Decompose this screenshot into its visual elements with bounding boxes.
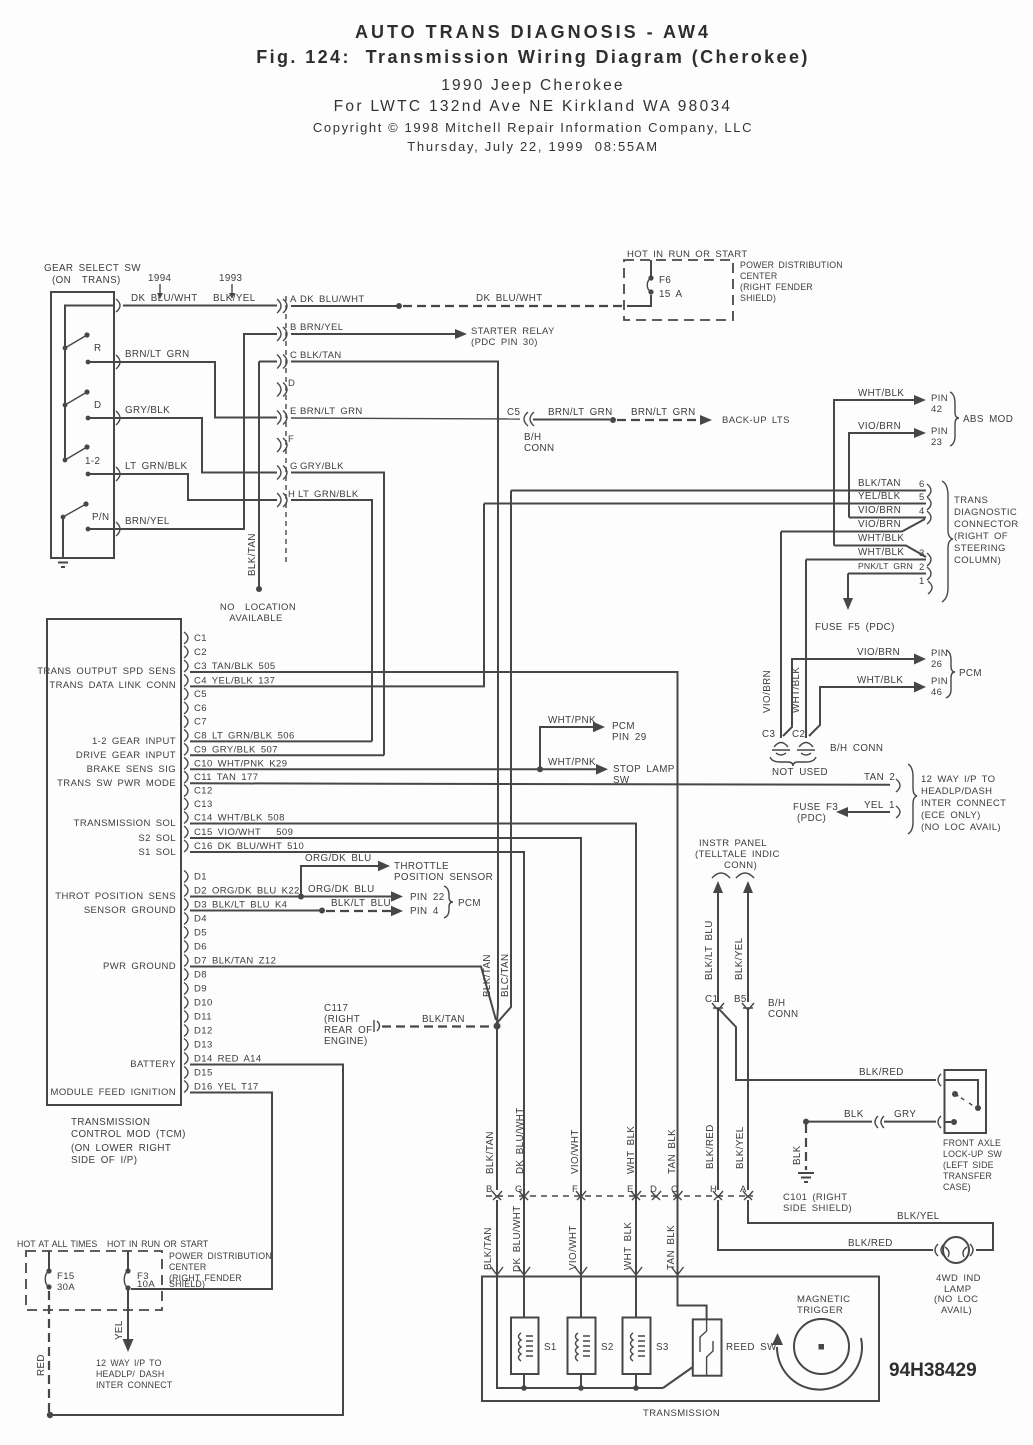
svg-text:1993: 1993 bbox=[219, 273, 243, 284]
svg-text:H: H bbox=[288, 489, 295, 500]
svg-text:H: H bbox=[710, 1184, 717, 1195]
instrument panel telltale wires bbox=[695, 838, 936, 1190]
wire to instr panel BLK/LT BLU bbox=[713, 881, 723, 893]
connector arcs at switch edge bbox=[116, 299, 120, 536]
wire C15 VIO/WHT 509 bbox=[190, 838, 581, 1266]
BLK to ground C101 bbox=[805, 1124, 807, 1170]
switch throw D bbox=[65, 392, 87, 405]
svg-text:YEL 1: YEL 1 bbox=[864, 800, 895, 811]
svg-text:S2: S2 bbox=[601, 1342, 614, 1353]
svg-text:PIN: PIN bbox=[931, 676, 948, 687]
svg-text:BLK/TAN: BLK/TAN bbox=[247, 533, 258, 576]
svg-text:F15: F15 bbox=[57, 1271, 75, 1282]
svg-text:VIO/WHT: VIO/WHT bbox=[568, 1225, 579, 1270]
svg-text:BLK/LT BLU: BLK/LT BLU bbox=[704, 920, 715, 980]
svg-text:BLK/LT BLU: BLK/LT BLU bbox=[331, 898, 391, 909]
svg-text:BACK-UP LTS: BACK-UP LTS bbox=[722, 415, 790, 426]
PCM brace bbox=[946, 650, 955, 698]
svg-text:TRANS OUTPUT SPD SENS: TRANS OUTPUT SPD SENS bbox=[37, 666, 176, 677]
svg-text:S2 SOL: S2 SOL bbox=[138, 833, 176, 844]
svg-text:PCM: PCM bbox=[612, 721, 635, 732]
svg-text:D1: D1 bbox=[194, 872, 207, 883]
svg-text:C117: C117 bbox=[324, 1003, 348, 1014]
svg-text:BLK/TAN: BLK/TAN bbox=[485, 1131, 496, 1174]
svg-text:C7: C7 bbox=[194, 717, 207, 728]
svg-text:FRONT AXLE: FRONT AXLE bbox=[943, 1138, 1001, 1148]
svg-text:B: B bbox=[290, 322, 297, 333]
svg-text:WHT/BLK: WHT/BLK bbox=[858, 547, 904, 558]
svg-text:DK BLU/WHT: DK BLU/WHT bbox=[300, 294, 365, 305]
pin 2 PNK/LT GRN bbox=[848, 573, 926, 575]
svg-text:C14 WHT/BLK 508: C14 WHT/BLK 508 bbox=[194, 813, 285, 824]
svg-text:D12: D12 bbox=[194, 1026, 213, 1037]
svg-text:3: 3 bbox=[919, 548, 925, 559]
svg-text:INTER CONNECT: INTER CONNECT bbox=[921, 798, 1006, 809]
svg-text:GRY/BLK: GRY/BLK bbox=[300, 461, 344, 472]
svg-text:GRY/BLK: GRY/BLK bbox=[125, 405, 170, 416]
svg-text:(LEFT SIDE: (LEFT SIDE bbox=[943, 1160, 994, 1170]
svg-text:COLUMN): COLUMN) bbox=[954, 555, 1001, 566]
svg-text:WHT/BLK: WHT/BLK bbox=[858, 388, 904, 399]
svg-text:PIN: PIN bbox=[931, 393, 948, 404]
switch throw R bbox=[65, 335, 87, 348]
svg-text:CASE): CASE) bbox=[943, 1182, 971, 1192]
svg-text:PIN 4: PIN 4 bbox=[410, 906, 439, 917]
svg-text:F: F bbox=[572, 1184, 578, 1195]
svg-text:F6: F6 bbox=[659, 275, 671, 286]
wire C11 TAN 177 to 12-way bbox=[190, 783, 890, 785]
svg-text:TAN 2: TAN 2 bbox=[864, 772, 895, 783]
svg-text:C16 DK BLU/WHT 510: C16 DK BLU/WHT 510 bbox=[194, 841, 304, 852]
switch throw 1-2 bbox=[65, 447, 87, 460]
svg-text:DK BLU/WHT: DK BLU/WHT bbox=[131, 293, 198, 304]
svg-text:ENGINE): ENGINE) bbox=[324, 1036, 368, 1047]
ground C101 bbox=[798, 1173, 814, 1182]
svg-text:REAR OF: REAR OF bbox=[324, 1025, 373, 1036]
wire C3 TAN/BLK 505 bbox=[190, 672, 678, 1266]
wire D2 ORG/DK BLU K22 to throttle position sensor / PCM pin 22 bbox=[190, 853, 493, 903]
svg-text:WHT/PNK: WHT/PNK bbox=[548, 715, 596, 726]
branch to front axle lock-up sw bbox=[719, 1009, 936, 1080]
VIO/BRN to PCM pin 26 bbox=[783, 659, 915, 736]
VIO/BRN joining pin 4 bbox=[781, 519, 925, 532]
svg-text:G: G bbox=[290, 461, 298, 472]
svg-text:AUTO TRANS DIAGNOSIS - AW4: AUTO TRANS DIAGNOSIS - AW4 bbox=[355, 22, 711, 42]
svg-text:G: G bbox=[515, 1184, 523, 1195]
wire D7 BLK/TAN Z12 bbox=[190, 967, 496, 1021]
svg-text:BRN/LT GRN: BRN/LT GRN bbox=[631, 407, 696, 418]
svg-text:LT GRN/BLK: LT GRN/BLK bbox=[125, 461, 188, 472]
svg-text:INTER CONNECT: INTER CONNECT bbox=[96, 1380, 173, 1390]
switch common bus bbox=[65, 306, 114, 461]
svg-text:P/N: P/N bbox=[92, 512, 110, 523]
svg-text:C6: C6 bbox=[194, 703, 207, 714]
fuse F6 15A bbox=[648, 289, 653, 294]
front axle lock-up switch bbox=[783, 1070, 1003, 1214]
wire down to fuse F5 bbox=[847, 574, 849, 600]
svg-text:C1: C1 bbox=[194, 633, 207, 644]
svg-text:THROT POSITION SENS: THROT POSITION SENS bbox=[55, 891, 176, 902]
svg-text:Copyright © 1998 Mitchell Repa: Copyright © 1998 Mitchell Repair Informa… bbox=[313, 120, 753, 135]
svg-text:HOT IN RUN OR START: HOT IN RUN OR START bbox=[107, 1239, 209, 1249]
svg-text:A: A bbox=[740, 1184, 747, 1195]
svg-text:TRANSMISSION SOL: TRANSMISSION SOL bbox=[74, 818, 176, 829]
ground below gear select sw bbox=[55, 558, 71, 567]
svg-text:15 A: 15 A bbox=[659, 289, 682, 300]
svg-text:(NO LOC: (NO LOC bbox=[934, 1294, 978, 1305]
left side labels bbox=[37, 666, 176, 1098]
svg-text:D: D bbox=[288, 378, 295, 389]
svg-text:BRN/YEL: BRN/YEL bbox=[125, 516, 170, 527]
svg-text:D11: D11 bbox=[194, 1012, 212, 1023]
svg-text:ABS MOD: ABS MOD bbox=[963, 414, 1013, 425]
main connector column A-H bbox=[277, 294, 298, 565]
switch contacts to wires bbox=[87, 361, 115, 363]
svg-text:WHT BLK: WHT BLK bbox=[623, 1222, 634, 1270]
svg-text:BRN/LT GRN: BRN/LT GRN bbox=[300, 406, 363, 417]
svg-text:For LWTC 132nd Ave NE Kirkland: For LWTC 132nd Ave NE Kirkland WA 98034 bbox=[334, 98, 733, 115]
WHT/BLK to pin 42 bbox=[834, 400, 915, 546]
svg-text:C4 YEL/BLK 137: C4 YEL/BLK 137 bbox=[194, 675, 275, 686]
svg-text:CONN: CONN bbox=[524, 443, 554, 454]
svg-text:CONN: CONN bbox=[768, 1009, 798, 1020]
svg-text:Thursday, July 22, 1999 08:55: Thursday, July 22, 1999 08:55AM bbox=[407, 139, 658, 154]
big brace bbox=[908, 764, 917, 834]
svg-text:D2 ORG/DK BLU K22: D2 ORG/DK BLU K22 bbox=[194, 886, 300, 897]
svg-text:B/H: B/H bbox=[524, 432, 542, 443]
brace ABS MOD bbox=[950, 392, 959, 446]
svg-text:94H38429: 94H38429 bbox=[889, 1360, 977, 1381]
svg-text:PIN 22: PIN 22 bbox=[410, 892, 445, 903]
svg-text:C101 (RIGHT: C101 (RIGHT bbox=[783, 1192, 847, 1203]
B/H connector C5 bbox=[524, 412, 528, 426]
svg-text:12 WAY I/P TO: 12 WAY I/P TO bbox=[96, 1358, 162, 1368]
svg-text:STOP LAMP: STOP LAMP bbox=[613, 764, 675, 775]
VIO/BRN vertical to C3 bbox=[780, 532, 782, 739]
svg-text:NO LOCATION: NO LOCATION bbox=[220, 602, 296, 613]
svg-text:BLK: BLK bbox=[792, 1145, 803, 1165]
svg-text:STARTER RELAY: STARTER RELAY bbox=[471, 326, 555, 337]
reed switch bbox=[693, 1319, 777, 1375]
svg-text:D: D bbox=[94, 400, 101, 411]
svg-text:Fig. 124: Transmission Wiring: Fig. 124: Transmission Wiring Diagram (C… bbox=[256, 47, 810, 67]
WHT/BLK vertical to C2 bbox=[805, 560, 807, 739]
svg-text:PIN: PIN bbox=[931, 648, 948, 659]
svg-text:DK BLU/WHT: DK BLU/WHT bbox=[515, 1107, 526, 1174]
svg-text:INSTR PANEL: INSTR PANEL bbox=[699, 838, 767, 849]
lamp connectors bbox=[935, 1244, 944, 1256]
svg-text:MODULE FEED IGNITION: MODULE FEED IGNITION bbox=[51, 1087, 176, 1098]
svg-text:5: 5 bbox=[919, 492, 925, 503]
svg-text:D9: D9 bbox=[194, 984, 207, 995]
svg-text:(ON TRANS): (ON TRANS) bbox=[52, 275, 121, 286]
svg-text:(RIGHT FENDER: (RIGHT FENDER bbox=[740, 282, 813, 292]
pin 5 YEL/BLK bbox=[484, 503, 926, 505]
PCM brace bbox=[444, 886, 453, 918]
svg-text:6: 6 bbox=[919, 479, 925, 490]
svg-text:D4: D4 bbox=[194, 914, 207, 925]
svg-text:D13: D13 bbox=[194, 1040, 213, 1051]
wire E BRN/LT GRN (from R position) bbox=[115, 349, 790, 454]
transmission connector row bbox=[483, 1107, 753, 1272]
svg-text:F: F bbox=[288, 434, 294, 445]
svg-text:WHT/PNK: WHT/PNK bbox=[548, 757, 596, 768]
TCM pin connectors D1-D16 bbox=[184, 871, 188, 1093]
svg-text:BATTERY: BATTERY bbox=[130, 1059, 176, 1070]
wire C10 WHT/PNK K29 to stop lamp sw bbox=[190, 715, 675, 786]
svg-text:PIN 29: PIN 29 bbox=[612, 732, 647, 743]
svg-text:C5: C5 bbox=[507, 407, 520, 418]
svg-text:TRANS: TRANS bbox=[954, 495, 988, 506]
svg-text:WHT BLK: WHT BLK bbox=[626, 1126, 637, 1174]
svg-text:HOT IN RUN OR START: HOT IN RUN OR START bbox=[627, 249, 748, 260]
svg-text:(ECE ONLY): (ECE ONLY) bbox=[921, 810, 981, 821]
svg-text:A: A bbox=[290, 294, 297, 305]
svg-text:SHIELD): SHIELD) bbox=[169, 1279, 205, 1289]
svg-text:PCM: PCM bbox=[458, 898, 481, 909]
svg-text:42: 42 bbox=[931, 404, 942, 415]
svg-text:VIO/BRN: VIO/BRN bbox=[858, 519, 901, 530]
transmission box bbox=[482, 1277, 879, 1420]
wire H BLK/RED down bbox=[717, 1010, 719, 1190]
svg-text:1990 Jeep Cherokee: 1990 Jeep Cherokee bbox=[441, 77, 625, 94]
svg-text:WHT/BLK: WHT/BLK bbox=[857, 675, 903, 686]
svg-text:MAGNETIC: MAGNETIC bbox=[797, 1294, 850, 1305]
svg-text:CONNECTOR: CONNECTOR bbox=[954, 519, 1019, 530]
solenoid S1 bbox=[511, 1318, 557, 1375]
wire G GRY/BLK (from D position) bbox=[115, 405, 384, 755]
TCM (transmission control module) box bbox=[37, 619, 186, 1166]
svg-text:BLK/YEL: BLK/YEL bbox=[734, 937, 745, 980]
svg-text:S1 SOL: S1 SOL bbox=[138, 847, 176, 858]
svg-text:R: R bbox=[94, 343, 101, 354]
svg-text:E: E bbox=[627, 1184, 634, 1195]
svg-text:C3: C3 bbox=[762, 729, 775, 740]
svg-text:HOT AT ALL TIMES: HOT AT ALL TIMES bbox=[17, 1239, 97, 1249]
wire C8 LT GRN/BLK 506 bbox=[190, 740, 372, 742]
svg-text:TAN BLK: TAN BLK bbox=[666, 1225, 677, 1270]
svg-text:23: 23 bbox=[931, 437, 942, 448]
svg-text:DK BLU/WHT: DK BLU/WHT bbox=[476, 293, 543, 304]
magnetic trigger bbox=[772, 1294, 862, 1390]
svg-text:CONN): CONN) bbox=[724, 860, 757, 871]
svg-text:CENTER: CENTER bbox=[169, 1262, 206, 1272]
not used brace bbox=[770, 757, 816, 766]
4WD indicator lamp circuit bbox=[718, 1200, 993, 1316]
svg-text:NOT USED: NOT USED bbox=[772, 767, 828, 778]
brace trans diagnostic connector bbox=[942, 481, 953, 602]
svg-text:D15: D15 bbox=[194, 1068, 213, 1079]
svg-text:VIO/BRN: VIO/BRN bbox=[857, 647, 900, 658]
wire C9 GRY/BLK 507 bbox=[190, 754, 384, 756]
svg-text:GRY: GRY bbox=[894, 1109, 916, 1120]
header bbox=[256, 22, 810, 154]
svg-text:C10 WHT/PNK K29: C10 WHT/PNK K29 bbox=[194, 758, 287, 769]
WHT/PNK branch to PCM pin 29 bbox=[540, 727, 594, 769]
svg-text:REED SW: REED SW bbox=[726, 1342, 777, 1353]
svg-text:12 WAY I/P TO: 12 WAY I/P TO bbox=[921, 774, 995, 785]
svg-text:BLK/RED: BLK/RED bbox=[848, 1238, 893, 1249]
solenoid S2 bbox=[568, 1318, 614, 1375]
svg-text:BLK/TAN: BLK/TAN bbox=[300, 350, 342, 361]
svg-text:GEAR SELECT SW: GEAR SELECT SW bbox=[44, 263, 141, 274]
svg-text:PWR GROUND: PWR GROUND bbox=[103, 961, 176, 972]
svg-text:ORG/DK BLU: ORG/DK BLU bbox=[305, 853, 372, 864]
svg-text:B: B bbox=[486, 1184, 493, 1195]
svg-text:CENTER: CENTER bbox=[740, 271, 777, 281]
power distribution center (top right) bbox=[624, 249, 843, 320]
svg-text:TRANSMISSION: TRANSMISSION bbox=[643, 1408, 720, 1419]
svg-text:C3 TAN/BLK 505: C3 TAN/BLK 505 bbox=[194, 661, 276, 672]
svg-text:POSITION SENSOR: POSITION SENSOR bbox=[394, 872, 493, 883]
svg-text:30A: 30A bbox=[57, 1282, 75, 1293]
svg-text:26: 26 bbox=[931, 659, 942, 670]
entry arrow forks bbox=[491, 1267, 684, 1275]
wires from connector into transmission bbox=[491, 1200, 707, 1391]
svg-text:BLK/RED: BLK/RED bbox=[705, 1124, 716, 1169]
svg-text:YEL/BLK: YEL/BLK bbox=[858, 491, 901, 502]
svg-text:C9 GRY/BLK 507: C9 GRY/BLK 507 bbox=[194, 744, 278, 755]
svg-text:VIO/BRN: VIO/BRN bbox=[762, 670, 773, 713]
svg-text:BLK/TAN: BLK/TAN bbox=[482, 954, 493, 997]
svg-text:D5: D5 bbox=[194, 928, 207, 939]
svg-text:SENSOR GROUND: SENSOR GROUND bbox=[84, 905, 176, 916]
svg-text:TAN BLK: TAN BLK bbox=[667, 1129, 678, 1174]
svg-text:THROTTLE: THROTTLE bbox=[394, 861, 449, 872]
svg-text:PCM: PCM bbox=[959, 668, 982, 679]
svg-text:BRN/LT GRN: BRN/LT GRN bbox=[125, 349, 190, 360]
wire C4 YEL/BLK 137 bbox=[190, 504, 484, 687]
svg-text:BLK/YEL: BLK/YEL bbox=[897, 1211, 940, 1222]
svg-text:S1: S1 bbox=[544, 1342, 557, 1353]
svg-text:FUSE F5 (PDC): FUSE F5 (PDC) bbox=[815, 622, 895, 633]
svg-text:(NO LOC AVAIL): (NO LOC AVAIL) bbox=[921, 822, 1001, 833]
wire A BLK/YEL down bbox=[747, 1010, 749, 1190]
svg-text:BLK/YEL: BLK/YEL bbox=[735, 1126, 746, 1169]
svg-text:AVAILABLE: AVAILABLE bbox=[229, 613, 282, 624]
svg-text:BRAKE SENS SIG: BRAKE SENS SIG bbox=[87, 764, 176, 775]
WHT/BLK joining pin 3 bbox=[834, 546, 926, 558]
svg-text:VIO/BRN: VIO/BRN bbox=[858, 421, 901, 432]
svg-text:BLC/TAN: BLC/TAN bbox=[500, 954, 511, 997]
svg-text:(RIGHT: (RIGHT bbox=[324, 1014, 360, 1025]
svg-text:C2: C2 bbox=[792, 729, 805, 740]
svg-text:D8: D8 bbox=[194, 970, 207, 981]
svg-text:(PDC): (PDC) bbox=[797, 813, 826, 824]
wire A DK BLU/WHT bbox=[123, 293, 628, 309]
switch throw P/N bbox=[63, 504, 86, 517]
svg-text:BLK/YEL: BLK/YEL bbox=[213, 293, 256, 304]
svg-text:D: D bbox=[650, 1184, 657, 1195]
svg-text:B5: B5 bbox=[734, 994, 747, 1005]
svg-text:S3: S3 bbox=[656, 1342, 669, 1353]
wire B BRN/YEL bbox=[115, 322, 555, 529]
svg-text:D16 YEL T17: D16 YEL T17 bbox=[194, 1082, 259, 1093]
svg-text:C: C bbox=[290, 350, 297, 361]
trans diagnostic connector bbox=[484, 478, 1019, 1023]
pin 4 VIO/BRN bbox=[849, 517, 926, 519]
svg-text:C12: C12 bbox=[194, 786, 213, 797]
svg-text:STEERING: STEERING bbox=[954, 543, 1006, 554]
svg-text:C8 LT GRN/BLK 506: C8 LT GRN/BLK 506 bbox=[194, 730, 295, 741]
svg-text:BLK/TAN: BLK/TAN bbox=[483, 1227, 494, 1270]
svg-text:D6: D6 bbox=[194, 942, 207, 953]
svg-text:1: 1 bbox=[919, 576, 925, 587]
svg-text:VIO/BRN: VIO/BRN bbox=[858, 505, 901, 516]
svg-text:RED: RED bbox=[36, 1354, 47, 1376]
svg-text:C13: C13 bbox=[194, 799, 213, 810]
svg-text:VIO/WHT: VIO/WHT bbox=[570, 1129, 581, 1174]
TCM pin connectors C1-C16 bbox=[184, 632, 188, 852]
svg-text:10A: 10A bbox=[137, 1279, 155, 1290]
svg-text:BRN/YEL: BRN/YEL bbox=[300, 322, 343, 333]
svg-text:B/H: B/H bbox=[768, 998, 786, 1009]
svg-text:PIN: PIN bbox=[931, 426, 948, 437]
svg-text:CONTROL MOD (TCM): CONTROL MOD (TCM) bbox=[71, 1129, 186, 1140]
svg-text:TRANSFER: TRANSFER bbox=[943, 1171, 992, 1181]
svg-text:SHIELD): SHIELD) bbox=[740, 293, 776, 303]
svg-text:1-2 GEAR INPUT: 1-2 GEAR INPUT bbox=[92, 736, 176, 747]
svg-text:BLK: BLK bbox=[844, 1109, 864, 1120]
svg-text:POWER DISTRIBUTION: POWER DISTRIBUTION bbox=[740, 260, 843, 270]
wire to instr panel BLK/YEL bbox=[743, 881, 753, 893]
pin 6 BLK/TAN bbox=[511, 490, 926, 492]
wire D3 BLK/LT BLU K4 to PCM pin 4 bbox=[190, 886, 481, 918]
ABS module pins bbox=[834, 388, 1013, 546]
wire C14 WHT/BLK 508 bbox=[190, 824, 636, 1267]
svg-text:PNK/LT GRN: PNK/LT GRN bbox=[858, 561, 913, 571]
B/H conn C3 C2 and PCM pins 26/46 bbox=[762, 532, 982, 779]
svg-text:4WD IND: 4WD IND bbox=[936, 1273, 981, 1284]
BLK / GRY wire bbox=[803, 1119, 809, 1125]
svg-text:DK BLU/WHT: DK BLU/WHT bbox=[512, 1205, 523, 1272]
svg-text:(ON LOWER RIGHT: (ON LOWER RIGHT bbox=[71, 1143, 171, 1154]
svg-text:BLK/TAN: BLK/TAN bbox=[422, 1014, 465, 1025]
solenoid S3 bbox=[623, 1318, 669, 1375]
svg-text:TRANS DATA LINK CONN: TRANS DATA LINK CONN bbox=[49, 680, 176, 691]
svg-text:D7 BLK/TAN Z12: D7 BLK/TAN Z12 bbox=[194, 956, 276, 967]
svg-text:1-2: 1-2 bbox=[85, 456, 100, 467]
svg-text:TRIGGER: TRIGGER bbox=[797, 1305, 843, 1316]
svg-text:YEL: YEL bbox=[114, 1320, 125, 1340]
svg-text:(PDC PIN 30): (PDC PIN 30) bbox=[471, 337, 538, 348]
svg-text:ORG/DK BLU: ORG/DK BLU bbox=[308, 884, 375, 895]
gear select switch (on trans) bbox=[44, 263, 243, 567]
fuse F3 10A bbox=[127, 1251, 129, 1270]
svg-text:1994: 1994 bbox=[148, 273, 172, 284]
12-way I/P connector TAN2 / YEL1 bbox=[793, 764, 1006, 834]
svg-text:BLK/TAN: BLK/TAN bbox=[858, 478, 901, 489]
svg-text:C: C bbox=[671, 1184, 678, 1195]
wire D14 RED A14 (battery feed) bbox=[36, 1065, 343, 1419]
svg-text:HEADLP/ DASH: HEADLP/ DASH bbox=[96, 1369, 164, 1379]
svg-text:C5: C5 bbox=[194, 689, 207, 700]
svg-text:E: E bbox=[290, 406, 297, 417]
power distribution center (bottom left) bbox=[17, 1239, 272, 1390]
lamp bulb bbox=[943, 1237, 969, 1263]
svg-text:(TELLTALE INDIC: (TELLTALE INDIC bbox=[695, 849, 780, 860]
wire C16 DK BLU/WHT 510 bbox=[190, 852, 524, 1266]
svg-text:SIDE OF I/P): SIDE OF I/P) bbox=[71, 1155, 137, 1166]
svg-text:46: 46 bbox=[931, 687, 942, 698]
fuse F15 30A bbox=[48, 1251, 50, 1270]
svg-text:POWER DISTRIBUTION: POWER DISTRIBUTION bbox=[169, 1251, 272, 1261]
svg-text:WHT/BLK: WHT/BLK bbox=[858, 533, 904, 544]
svg-text:D10: D10 bbox=[194, 998, 213, 1009]
pin 3 WHT/BLK bbox=[806, 559, 926, 561]
svg-text:SIDE SHIELD): SIDE SHIELD) bbox=[783, 1203, 852, 1214]
svg-text:BRN/LT GRN: BRN/LT GRN bbox=[548, 407, 613, 418]
